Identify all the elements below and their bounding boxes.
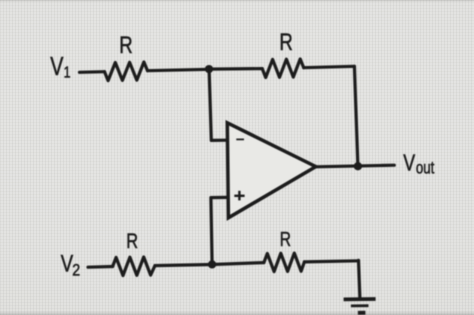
svg-text:2: 2 bbox=[72, 262, 80, 280]
wire feedback vertical bbox=[354, 66, 358, 166]
resistor R1 bbox=[105, 62, 148, 81]
wire R1 to node A bbox=[148, 69, 210, 70]
resistor R4 bbox=[264, 253, 305, 272]
wire V2 lead bbox=[88, 265, 113, 269]
wire node A to R2 bbox=[209, 67, 262, 71]
label V2 bbox=[61, 249, 80, 280]
svg-text:1: 1 bbox=[64, 64, 71, 82]
wire down to ground bbox=[359, 260, 360, 298]
label V1 bbox=[50, 51, 70, 82]
node Vout junction dot bbox=[354, 162, 362, 170]
wire op-amp output bbox=[316, 165, 395, 167]
op-amp plus sign bbox=[234, 191, 244, 201]
svg-text:R: R bbox=[119, 30, 132, 58]
wire R4 to ground corner bbox=[304, 261, 358, 262]
resistor R2 bbox=[262, 59, 304, 78]
wire R3 to node B bbox=[155, 265, 212, 266]
svg-text:R: R bbox=[279, 27, 292, 55]
wire node B to R4 bbox=[212, 263, 264, 265]
svg-text:R: R bbox=[126, 230, 138, 254]
resistor R3 bbox=[113, 257, 155, 276]
ground bbox=[344, 299, 376, 313]
op-amp minus sign bbox=[236, 138, 244, 140]
op-amp U1 bbox=[227, 123, 315, 218]
wire node B up to non-inverting input bbox=[211, 197, 227, 264]
wire node A down to inverting input bbox=[209, 69, 227, 140]
svg-text:V: V bbox=[50, 51, 64, 80]
svg-text:R: R bbox=[280, 228, 291, 251]
label Vout bbox=[403, 150, 435, 178]
node A junction dot bbox=[205, 65, 213, 73]
wire V1 lead bbox=[80, 70, 105, 74]
wire R2 to top-right corner bbox=[304, 66, 355, 67]
svg-text:V: V bbox=[403, 150, 415, 176]
svg-text:out: out bbox=[416, 159, 435, 178]
node B junction dot bbox=[208, 260, 216, 268]
